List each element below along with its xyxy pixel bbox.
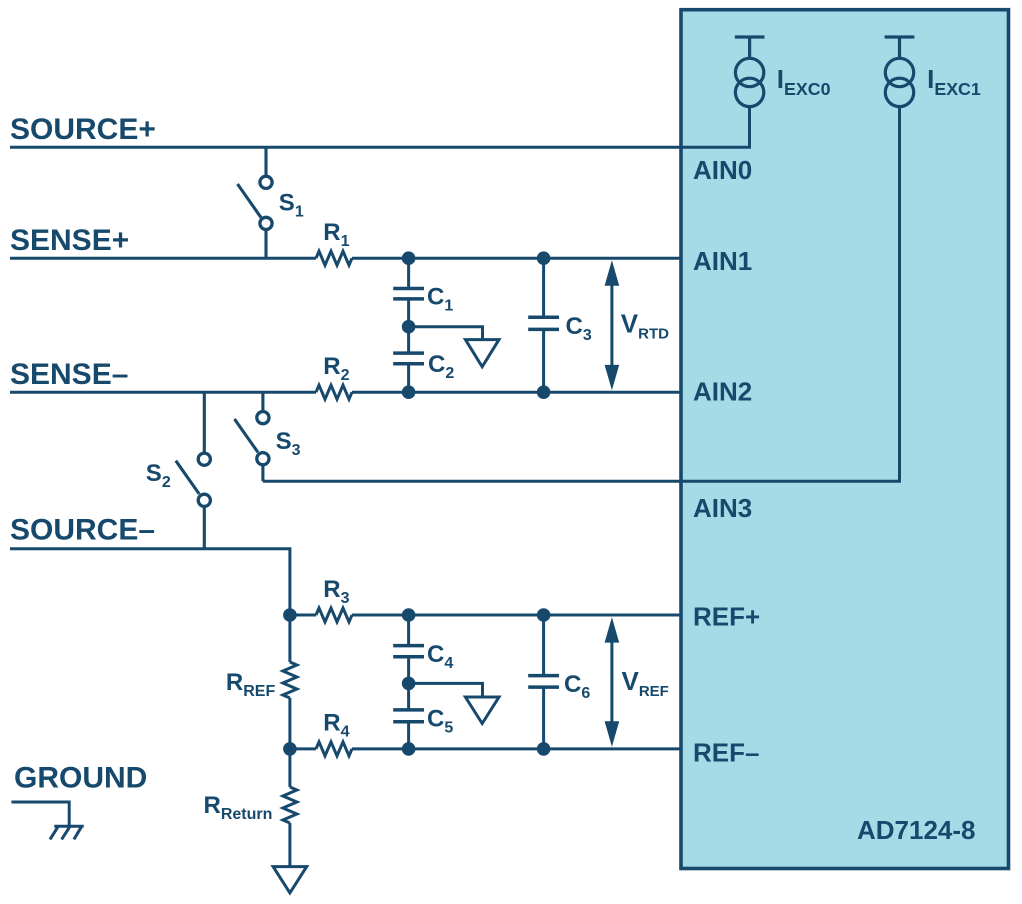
svg-text:AD7124-8: AD7124-8 <box>857 815 976 845</box>
wire AIN3 net <box>263 107 900 482</box>
resistor R4 <box>316 742 352 756</box>
wire ground tap C1 C2 <box>409 327 483 340</box>
arrow VRTD <box>605 260 620 390</box>
resistor R1 <box>316 251 352 265</box>
resistor RReturn <box>283 787 297 823</box>
node C1 C2 midpoint <box>402 320 416 334</box>
node SENSE- C2 junction <box>402 385 416 399</box>
node SENSE+ C1 junction <box>402 251 416 265</box>
capacitor C5 <box>393 710 424 722</box>
svg-text:S1: S1 <box>279 189 304 220</box>
svg-text:SENSE+: SENSE+ <box>10 224 129 257</box>
svg-text:REF+: REF+ <box>693 601 760 631</box>
node REF+ C4 junction <box>402 608 416 622</box>
svg-text:C2: C2 <box>428 351 454 382</box>
wire C4 C5 column <box>407 615 410 749</box>
AD7124-8 box <box>681 10 1009 869</box>
node C4 C5 midpoint <box>402 677 416 691</box>
switch S2 <box>176 392 211 549</box>
resistor R2 <box>316 385 352 399</box>
svg-text:SENSE–: SENSE– <box>10 358 128 391</box>
resistor RREF <box>283 662 297 698</box>
node SENSE- C3 junction <box>537 385 551 399</box>
svg-text:SOURCE+: SOURCE+ <box>10 113 156 146</box>
wire SENSE+ rail <box>10 257 316 260</box>
svg-text:R1: R1 <box>323 219 349 250</box>
svg-text:S2: S2 <box>146 460 171 491</box>
svg-text:C3: C3 <box>566 313 592 344</box>
node SENSE+ C3 junction <box>537 251 551 265</box>
current source IEXC0 <box>735 37 765 107</box>
capacitor C3 <box>528 317 559 329</box>
wire C6 column <box>542 615 545 749</box>
ground arrow mid <box>465 697 499 724</box>
switch S3 <box>235 392 270 481</box>
current source IEXC1 <box>885 37 915 107</box>
wire REF+ rail <box>290 614 316 617</box>
capacitor C1 <box>393 289 424 299</box>
svg-text:GROUND: GROUND <box>14 762 147 795</box>
svg-text:REF–: REF– <box>693 737 759 767</box>
svg-text:S3: S3 <box>276 428 301 459</box>
ground arrow top <box>465 340 499 367</box>
svg-text:C5: C5 <box>427 706 453 737</box>
svg-text:AIN2: AIN2 <box>693 376 752 406</box>
svg-text:C4: C4 <box>427 641 453 672</box>
capacitor C2 <box>393 353 424 364</box>
wire ground tap C4 C5 <box>409 683 483 697</box>
resistor R3 <box>316 608 352 622</box>
svg-text:AIN3: AIN3 <box>693 493 752 523</box>
wire SOURCE+ rail <box>10 107 750 148</box>
capacitor C4 <box>393 646 424 657</box>
wire C3 column <box>542 258 545 392</box>
svg-text:C1: C1 <box>427 284 453 315</box>
svg-text:RReturn: RReturn <box>204 792 273 823</box>
wire SENSE- rail <box>10 391 316 394</box>
svg-text:R4: R4 <box>323 710 349 741</box>
svg-text:C6: C6 <box>564 671 590 702</box>
node REF+ C6 junction <box>537 608 551 622</box>
node REF- left junction <box>283 742 297 756</box>
arrow VREF <box>605 617 620 747</box>
wire RReturn branch <box>288 749 291 787</box>
svg-text:SOURCE–: SOURCE– <box>10 513 155 546</box>
wire RREF branch <box>288 615 291 662</box>
switch S1 <box>238 147 273 258</box>
svg-text:VRTD: VRTD <box>621 309 669 343</box>
svg-text:VREF: VREF <box>622 666 669 700</box>
wire SOURCE- rail <box>10 549 290 615</box>
node REF- C5 junction <box>402 742 416 756</box>
svg-text:RREF: RREF <box>226 669 276 700</box>
node REF- C6 junction <box>537 742 551 756</box>
wire C1 C2 column <box>407 258 410 392</box>
node REF+ left junction <box>283 608 297 622</box>
svg-text:AIN1: AIN1 <box>693 246 752 276</box>
svg-text:R3: R3 <box>323 576 349 607</box>
svg-text:R2: R2 <box>323 353 349 384</box>
wire REF- rail <box>290 747 316 750</box>
svg-text:AIN0: AIN0 <box>693 155 752 185</box>
ground arrow bottom <box>273 867 307 893</box>
ground chassis symbol <box>11 802 83 839</box>
capacitor C6 <box>528 676 559 688</box>
